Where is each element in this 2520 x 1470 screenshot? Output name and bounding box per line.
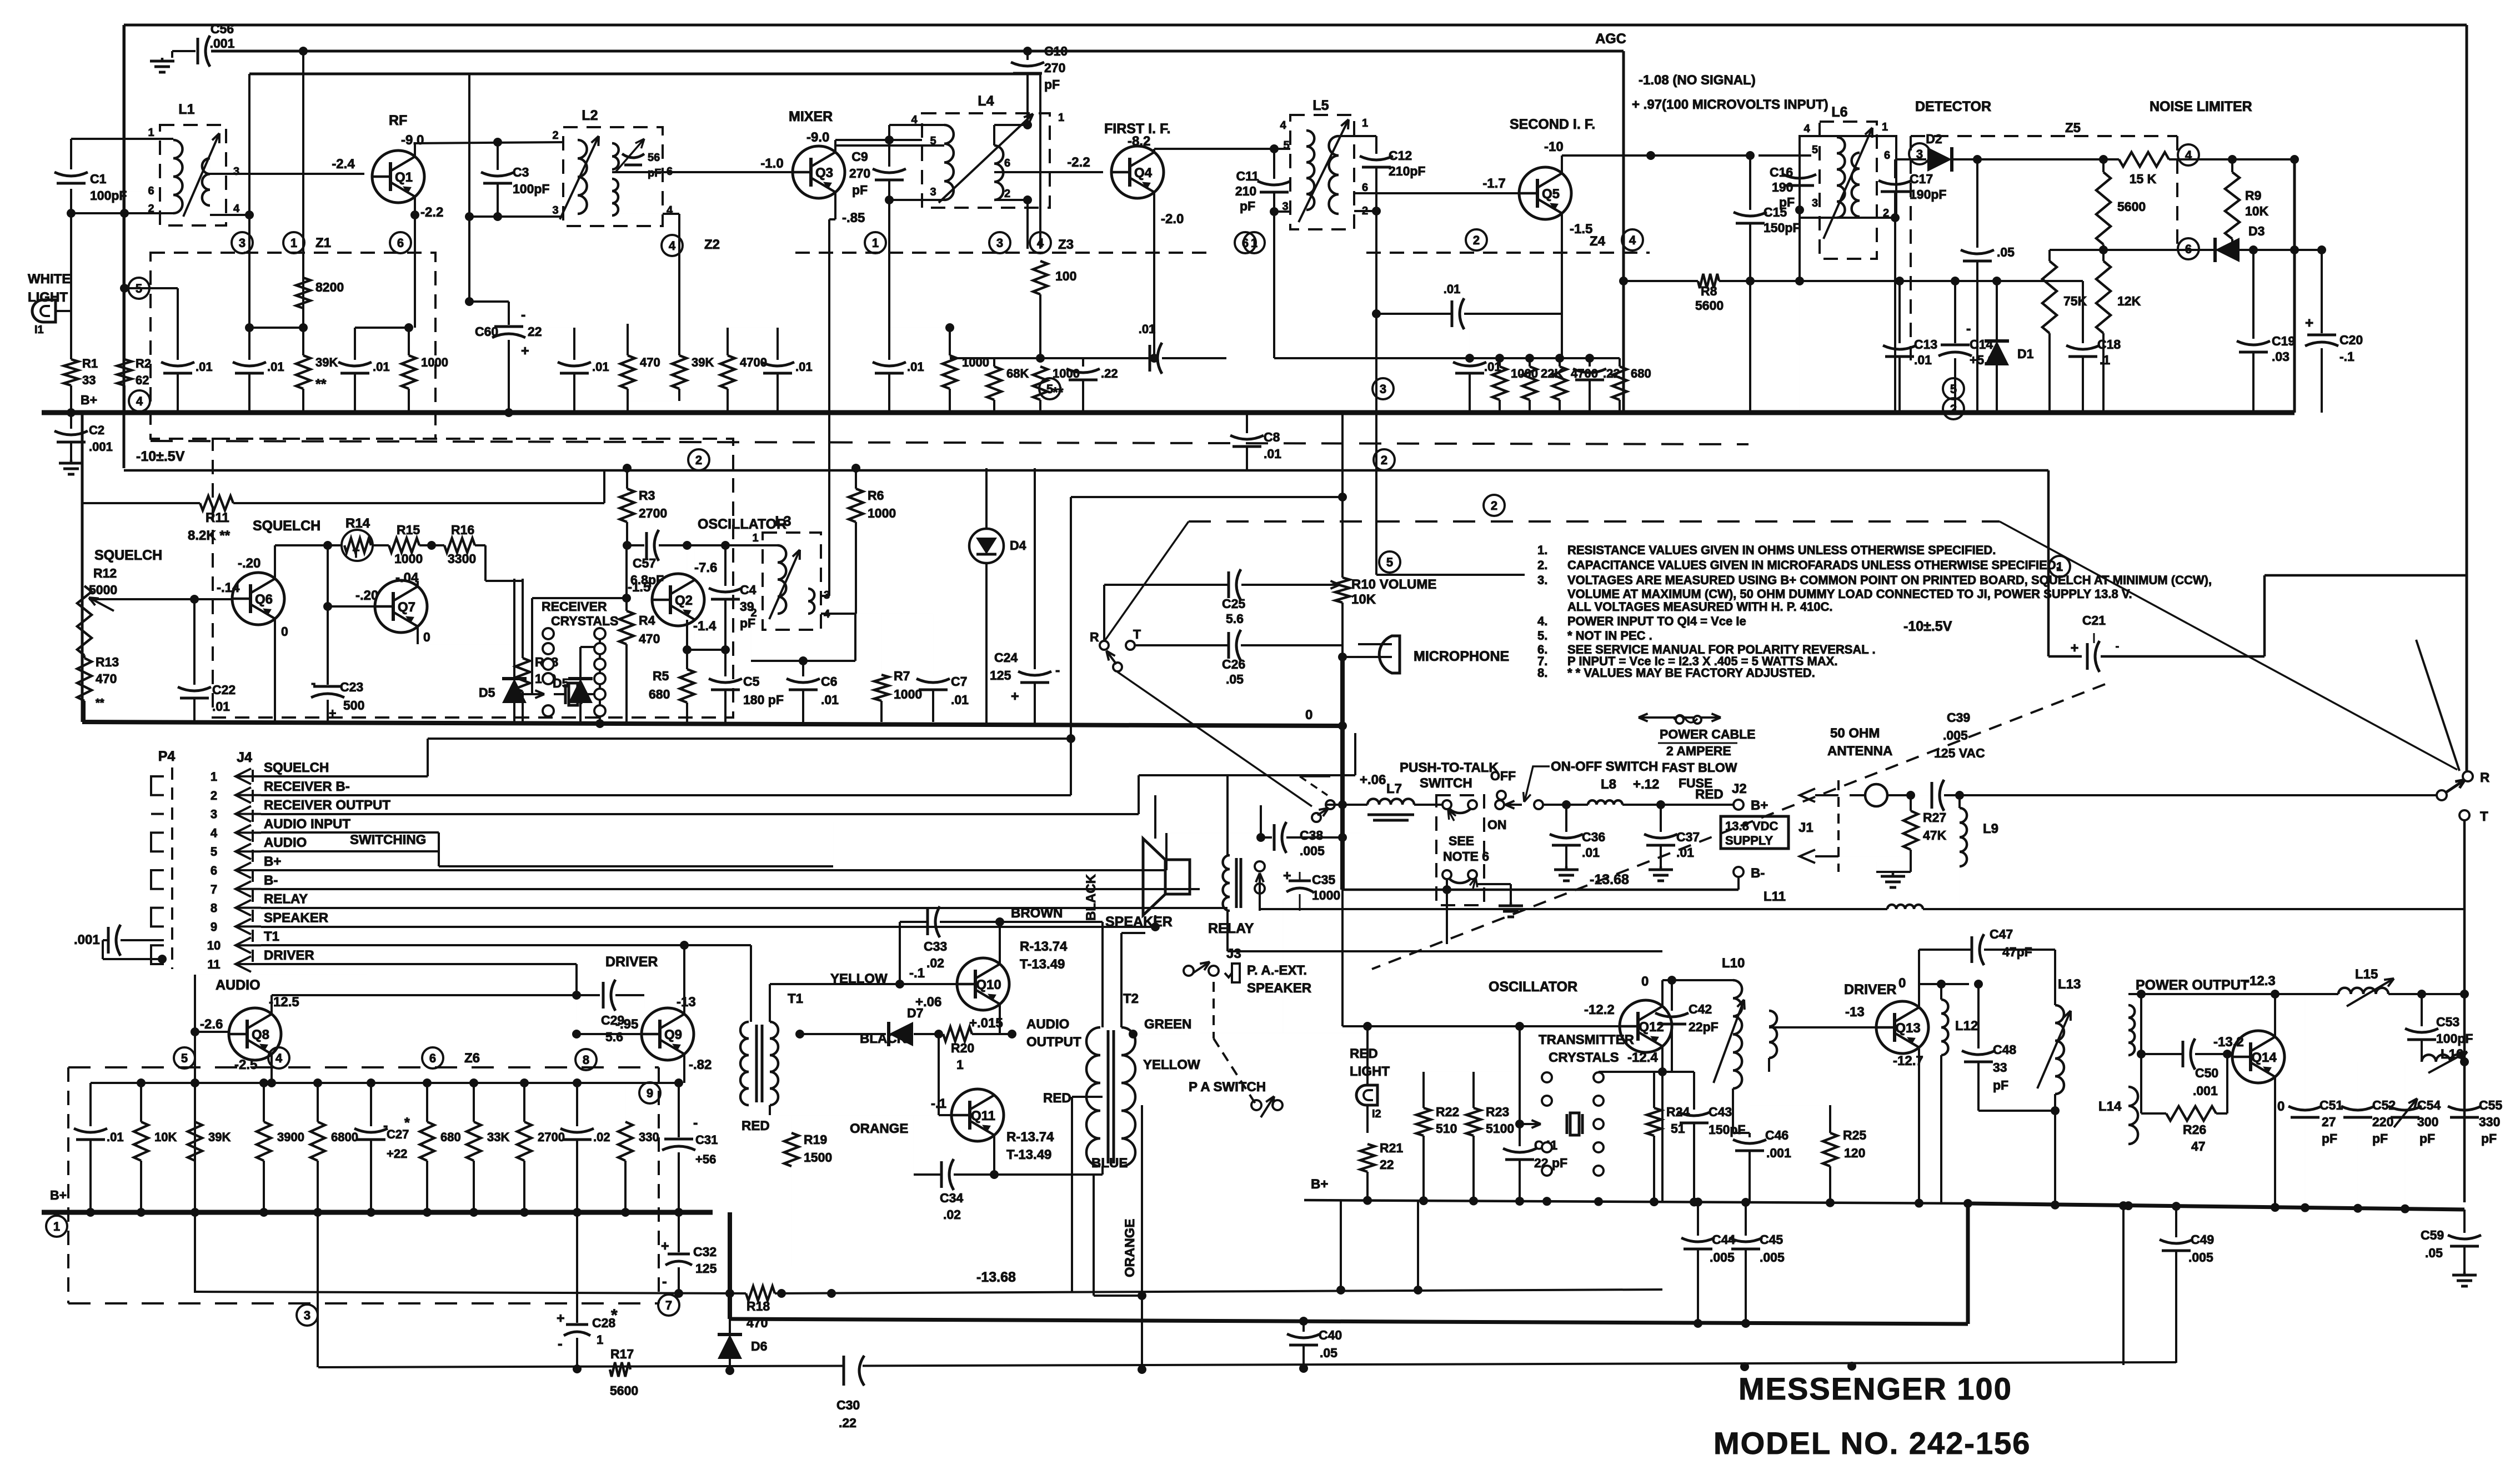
svg-text:4: 4	[275, 1051, 283, 1065]
svg-text:-9.0: -9.0	[401, 133, 424, 148]
diagonal to mic lever	[1104, 521, 1189, 641]
wire B- bus right portion	[1758, 358, 1759, 359]
capacitor .01 Z4a	[1469, 314, 1470, 360]
svg-text:500: 500	[343, 698, 364, 713]
svg-text:C25: C25	[1222, 596, 1245, 611]
wire Q5 emitter to Z4	[1561, 314, 1562, 358]
crystal selector circles right	[599, 634, 601, 724]
node circled 4 B+	[129, 390, 150, 412]
svg-text:-.1: -.1	[2339, 349, 2354, 364]
svg-text:MODEL NO. 242-156: MODEL NO. 242-156	[1714, 1426, 2031, 1461]
wire C57 to L3	[659, 544, 756, 546]
svg-text:C38: C38	[1300, 828, 1323, 842]
capacitor .01 series Z3	[1149, 345, 1151, 372]
inductor L1 primary	[173, 140, 183, 213]
wire R20 to Q10 emitter node	[972, 1033, 1012, 1035]
svg-text:* NOT IN PEC .: * NOT IN PEC .	[1567, 629, 1652, 643]
svg-text:1000: 1000	[1312, 888, 1340, 902]
resistor 3900 z6	[263, 1083, 265, 1122]
svg-text:C37: C37	[1676, 830, 1700, 844]
wire Q8 collector	[270, 995, 273, 1014]
wire R18 -13.68 line	[196, 1292, 746, 1293]
wire R11 right riser	[603, 470, 605, 503]
svg-text:6800: 6800	[331, 1130, 358, 1144]
svg-text:.22: .22	[1101, 367, 1118, 380]
node circled 3	[232, 232, 253, 253]
svg-text:5: 5	[1046, 382, 1053, 396]
svg-text:C5: C5	[743, 674, 760, 689]
capacitor C50	[2182, 1041, 2185, 1067]
wire L3 bottom rail	[751, 660, 855, 662]
wire BLUE line	[994, 1173, 1094, 1176]
svg-text:190pF: 190pF	[1910, 187, 1946, 202]
svg-text:POWER CABLE: POWER CABLE	[1660, 727, 1756, 741]
node circled 8 z6	[575, 1049, 597, 1070]
wire Q14 emitter drop	[2274, 1077, 2276, 1207]
capacitor C20	[2321, 250, 2323, 333]
wire -10V line	[124, 469, 2048, 472]
svg-text:B-: B-	[264, 873, 278, 888]
resistor 2700 z6	[523, 1083, 525, 1122]
svg-text:27: 27	[2322, 1115, 2336, 1129]
wire L5 pin3 line	[1274, 210, 1290, 213]
transistor Q9 (driver)	[642, 1008, 694, 1060]
svg-text:-13.68: -13.68	[1590, 872, 1629, 887]
svg-text:15 K: 15 K	[2130, 172, 2157, 186]
svg-text:8: 8	[583, 1053, 589, 1067]
inductor L8	[1588, 800, 1622, 805]
resistor 12K	[2102, 250, 2105, 261]
svg-text:-1.7: -1.7	[1482, 176, 1505, 191]
wire det line to riser	[2169, 158, 2294, 160]
wire Q9 collector	[683, 945, 685, 1014]
svg-text:.05: .05	[1320, 1346, 1337, 1360]
resistor R2	[117, 359, 132, 385]
svg-text:6: 6	[397, 236, 404, 250]
resistor 8200	[296, 278, 310, 308]
resistor 22K Z4	[1522, 367, 1537, 400]
svg-text:.1: .1	[2100, 353, 2110, 367]
wire T1 sec mid (black) to D7	[769, 1034, 770, 1043]
svg-text:470: 470	[96, 671, 117, 686]
svg-text:C19: C19	[2272, 334, 2295, 348]
svg-text:+: +	[521, 343, 529, 359]
capacitor C59	[2448, 1235, 2481, 1239]
wire B+ bus audio	[42, 1210, 713, 1215]
wire note6 plug drop2	[1446, 890, 1447, 944]
wire osc feed line	[1200, 1032, 1520, 1033]
relay contacts	[1255, 861, 1265, 871]
wire mic leads	[1358, 643, 1392, 645]
wire x449 vertical (Z1 pin3)	[248, 74, 251, 215]
relay coil	[1223, 855, 1230, 911]
svg-text:R15: R15	[397, 523, 420, 537]
svg-text:6: 6	[211, 864, 217, 877]
wire pin7 line	[261, 888, 1200, 890]
wire audio input riser	[439, 865, 833, 867]
wire L1 pin3 to Q1 base	[209, 158, 211, 174]
svg-text:3.: 3.	[1537, 573, 1547, 587]
wire squelch left vertical	[82, 503, 83, 586]
svg-text:-13.68: -13.68	[976, 1270, 1016, 1285]
wire emitter rail	[687, 649, 725, 651]
svg-text:R18: R18	[747, 1299, 770, 1313]
node circled 3 Z5	[1909, 143, 1930, 164]
wire T rail	[2463, 820, 2466, 1202]
capacitor C53	[2421, 994, 2423, 1026]
wire plug bottom drop	[1446, 879, 1448, 944]
svg-text:-10±.5V: -10±.5V	[1903, 619, 1952, 634]
svg-text:2 AMPERE: 2 AMPERE	[1666, 744, 1731, 758]
transistor Q7 (squelch)	[375, 580, 427, 633]
svg-text:L6: L6	[1831, 104, 1847, 120]
wire brown riser to T2	[1101, 922, 1104, 1027]
ground C2	[70, 460, 73, 463]
svg-text:L12: L12	[1955, 1019, 1978, 1033]
svg-text:3: 3	[1812, 197, 1818, 209]
wire pin5 line	[261, 850, 439, 852]
svg-text:.01: .01	[1264, 446, 1281, 461]
resistor 6800 z6	[317, 1083, 319, 1122]
capacitor C31	[678, 1083, 680, 1137]
svg-text:39K: 39K	[315, 355, 338, 369]
svg-text:8200: 8200	[315, 280, 344, 294]
inductor L12	[1941, 1000, 1948, 1055]
svg-text:.001: .001	[1766, 1146, 1791, 1160]
wire detector output line	[1977, 158, 2119, 160]
resistor 75K	[2048, 250, 2051, 261]
inductor L12 input coil	[1769, 1011, 1777, 1058]
svg-text:OFF: OFF	[1490, 769, 1516, 783]
wire heavy bottom branch	[728, 1212, 732, 1319]
crystal wiper arrow	[532, 693, 537, 695]
R/T lever pivot	[2437, 790, 2447, 800]
svg-text:3: 3	[233, 165, 239, 178]
svg-text:D6: D6	[751, 1339, 767, 1353]
capacitor C8	[1246, 413, 1248, 433]
resistor 330 z6	[625, 1083, 626, 1122]
svg-text:R: R	[1090, 630, 1099, 644]
svg-text:.001: .001	[89, 440, 113, 454]
wire T2 sec top	[1120, 933, 1123, 1027]
svg-text:1: 1	[1058, 112, 1064, 124]
wire pin2 line	[261, 794, 1071, 796]
wire L10 top	[1732, 980, 1734, 981]
svg-text:+: +	[1011, 689, 1019, 704]
wire pin1 squelch line	[261, 775, 428, 777]
svg-text:C56: C56	[211, 22, 234, 36]
capacitor .02 z6	[576, 1083, 578, 1126]
resistor 68K	[987, 367, 1001, 400]
capacitor C40	[1287, 1334, 1320, 1338]
svg-text:8: 8	[211, 901, 217, 915]
svg-text:D2: D2	[1926, 132, 1942, 146]
svg-text:T1: T1	[264, 929, 279, 944]
node circled 7 z6	[658, 1295, 679, 1316]
svg-text:100pF: 100pF	[90, 188, 127, 203]
svg-text:C57: C57	[633, 556, 656, 570]
wire 100 bottom	[1039, 294, 1041, 358]
wire squelch bottom heavy bus	[82, 722, 1342, 726]
svg-text:ORANGE: ORANGE	[1123, 1219, 1138, 1277]
svg-text:47: 47	[2191, 1139, 2206, 1153]
wire Q9 emitter to C31	[674, 1078, 683, 1087]
svg-text:C40: C40	[1319, 1328, 1342, 1342]
svg-text:+22: +22	[387, 1147, 407, 1161]
svg-text:LIGHT: LIGHT	[1350, 1064, 1390, 1079]
svg-text:C55: C55	[2479, 1098, 2502, 1112]
svg-text:39K: 39K	[208, 1130, 231, 1144]
svg-text:R25: R25	[1843, 1128, 1866, 1142]
inductor L5 primary	[1306, 131, 1314, 210]
wire Q3 emitter	[834, 192, 836, 219]
svg-text:2: 2	[552, 129, 558, 142]
inductor L2 secondary small	[612, 143, 619, 169]
svg-text:470: 470	[639, 631, 660, 646]
svg-text:I1: I1	[34, 324, 44, 336]
wire AGC riser join	[1650, 155, 1651, 156]
svg-text:Z5: Z5	[2065, 121, 2081, 136]
wire Q6 emitter	[274, 619, 276, 722]
svg-text:5.: 5.	[1537, 629, 1547, 643]
capacitor C29	[599, 995, 600, 996]
resistor R26	[2166, 1106, 2216, 1121]
svg-text:5: 5	[211, 845, 217, 859]
node circled 2 a	[688, 449, 709, 470]
mic R/T switch	[1100, 641, 1109, 650]
wire Q4 emitter	[1153, 192, 1155, 358]
svg-text:.02: .02	[593, 1130, 610, 1144]
inductor L3 primary	[778, 545, 786, 614]
svg-text:6: 6	[1004, 157, 1010, 169]
wire L2 pin6 to Q3	[612, 171, 794, 173]
svg-text:POWER INPUT TO QI4 = Vce Ie: POWER INPUT TO QI4 = Vce Ie	[1567, 614, 1746, 628]
resistor 10K z6	[140, 1083, 142, 1122]
svg-text:220: 220	[2372, 1115, 2393, 1129]
transistor Q2 (oscillator)	[652, 574, 704, 626]
svg-text:C29: C29	[601, 1013, 624, 1027]
wire Q7 base line	[328, 605, 375, 608]
svg-text:C24: C24	[994, 650, 1018, 665]
resistor R1	[64, 359, 78, 385]
svg-text:+: +	[329, 706, 336, 720]
thermistor R14	[342, 530, 373, 561]
resistor R16	[444, 538, 475, 553]
svg-text:B+: B+	[1751, 798, 1768, 813]
svg-text:.02: .02	[943, 1207, 961, 1222]
wire L13 bottom	[2054, 1094, 2056, 1205]
wire L16 rail join	[2460, 990, 2469, 999]
svg-text:RELAY: RELAY	[1208, 921, 1254, 936]
svg-text:1: 1	[752, 532, 758, 544]
svg-text:-12.4: -12.4	[1627, 1050, 1658, 1065]
resistor 1000** Z3	[1033, 367, 1048, 400]
wire z3 rail	[889, 327, 950, 328]
svg-text:50 OHM: 50 OHM	[1830, 726, 1880, 741]
wire rail risers to R18 line	[1340, 1201, 1342, 1290]
wire xtal col join	[1598, 1077, 1599, 1171]
svg-text:6: 6	[2185, 242, 2192, 256]
resistor 4700 Z2	[720, 355, 735, 389]
wire 6800 leg down	[317, 1212, 319, 1367]
svg-text:-2.6: -2.6	[200, 1017, 223, 1032]
svg-text:2: 2	[148, 203, 154, 215]
svg-text:-1.0: -1.0	[760, 156, 783, 171]
wire L10 bottom drop	[1732, 1088, 1734, 1133]
capacitor C22	[178, 687, 211, 691]
svg-text:SUPPLY: SUPPLY	[1725, 834, 1773, 847]
polarity plug top	[1442, 800, 1451, 809]
svg-text:7: 7	[211, 882, 217, 896]
svg-text:R6: R6	[868, 488, 884, 503]
svg-text:C18: C18	[2097, 337, 2121, 352]
wire C1 bottom node line	[71, 212, 173, 214]
crystal selector circles left	[543, 628, 554, 639]
wire det bias line	[1800, 280, 2083, 282]
wire top border	[124, 24, 2467, 27]
svg-text:C10: C10	[1044, 44, 1068, 58]
svg-text:4: 4	[1803, 123, 1810, 135]
capacitor C18	[2082, 281, 2084, 343]
svg-text:L3: L3	[775, 514, 791, 529]
dashed link J3 to PA switch	[1213, 982, 1215, 1038]
svg-text:R12: R12	[93, 566, 117, 580]
svg-text:D3: D3	[2248, 224, 2265, 238]
connector pin 10 T1	[236, 937, 251, 953]
wire pin9 line	[261, 926, 1155, 928]
wire BROWN line	[1000, 921, 1103, 923]
svg-text:5.6: 5.6	[605, 1030, 623, 1044]
svg-text:-8.2: -8.2	[1128, 134, 1150, 149]
connector P4 brackets	[151, 776, 164, 795]
svg-text:B+: B+	[50, 1188, 67, 1202]
svg-text:L13: L13	[2058, 977, 2081, 992]
svg-text:NOISE LIMITER: NOISE LIMITER	[2150, 99, 2252, 114]
resistor R25	[1823, 1133, 1837, 1166]
connector pin 11 DRIVER	[236, 956, 251, 972]
svg-text:MESSENGER 100: MESSENGER 100	[1739, 1371, 2012, 1406]
inductor L1 secondary	[202, 158, 210, 205]
wire Q9 base	[577, 1033, 642, 1035]
svg-text:62: 62	[136, 373, 149, 387]
PTT contacts	[1326, 800, 1335, 809]
svg-text:Q14: Q14	[2251, 1050, 2277, 1065]
capacitor C7	[933, 614, 934, 676]
svg-text:C36: C36	[1582, 830, 1605, 844]
svg-text:C12: C12	[1389, 148, 1412, 163]
wire B+ bus (receiver)	[42, 410, 2294, 415]
svg-text:-2.4: -2.4	[332, 157, 355, 172]
wire R2 tap line	[124, 287, 178, 289]
svg-text:.02: .02	[926, 956, 944, 970]
svg-text:C51: C51	[2319, 1098, 2343, 1112]
capacitor C33	[926, 909, 929, 935]
capacitor C30 series	[845, 1355, 863, 1386]
svg-text:3: 3	[1380, 382, 1386, 396]
resistor R13	[77, 658, 92, 701]
L4 arrow	[939, 114, 1033, 203]
svg-text:56: 56	[648, 152, 660, 164]
resistor 100 Z3	[1033, 261, 1048, 294]
svg-text:.01: .01	[795, 360, 813, 374]
resistor 5600 Z5	[2096, 172, 2111, 244]
capacitor C45	[1745, 1203, 1747, 1236]
SEE NOTE 6 box	[1436, 795, 1484, 905]
svg-text:2: 2	[750, 607, 756, 619]
svg-text:+: +	[2305, 314, 2313, 331]
transformer L4 box	[922, 113, 1050, 208]
svg-text:C53: C53	[2436, 1015, 2459, 1029]
svg-text:OSCILLATOR: OSCILLATOR	[1489, 979, 1577, 995]
svg-text:680: 680	[440, 1130, 461, 1144]
wire pin4 line	[261, 831, 439, 834]
svg-text:pF: pF	[1779, 195, 1795, 209]
node circled 6 Z5	[2178, 238, 2199, 259]
wire PA collector line	[2128, 993, 2338, 995]
svg-text:R3: R3	[639, 488, 655, 503]
svg-text:SPEAKER: SPEAKER	[264, 910, 328, 925]
svg-text:-10±.5V: -10±.5V	[136, 449, 185, 464]
svg-text:+.12: +.12	[1633, 777, 1659, 792]
diode D3	[2215, 238, 2240, 262]
wire AGC vertical	[1622, 51, 1625, 413]
svg-text:100: 100	[1055, 269, 1076, 283]
node circled 4 Z3	[1030, 232, 1051, 253]
svg-text:5600: 5600	[610, 1383, 638, 1398]
svg-text:33: 33	[82, 373, 96, 387]
svg-text:T: T	[2480, 809, 2488, 824]
receiver crystals box lines	[532, 597, 627, 599]
wire Q14 collector	[2274, 994, 2276, 1037]
inductor L4 primary	[944, 125, 954, 200]
PA switch contacts	[1251, 1100, 1261, 1110]
connector P4 pin3 stub	[151, 813, 164, 815]
capacitor .05 Z5	[1976, 159, 1978, 248]
svg-text:+.06: +.06	[915, 995, 941, 1010]
svg-text:T: T	[353, 548, 359, 560]
svg-text:39K: 39K	[692, 355, 714, 369]
svg-text:.01: .01	[1914, 353, 1932, 367]
svg-text:B+: B+	[1311, 1177, 1328, 1192]
inductor L11	[1887, 905, 1923, 909]
svg-text:SECOND I. F.: SECOND I. F.	[1510, 117, 1595, 132]
wire blue jog	[1093, 1175, 1095, 1296]
svg-text:330: 330	[639, 1130, 659, 1144]
svg-text:T-13.49: T-13.49	[1006, 1147, 1051, 1162]
node circled 1 Z3	[865, 232, 886, 253]
wire Q5 emitter	[1561, 213, 1563, 358]
capacitor C35	[1289, 880, 1311, 882]
svg-text:-: -	[1966, 321, 1971, 337]
diagonal mic to PTT	[1118, 672, 1312, 806]
svg-text:2.: 2.	[1537, 558, 1547, 572]
svg-text:0: 0	[2277, 1099, 2284, 1114]
connector pin 1 SQUELCH	[236, 769, 251, 784]
svg-text:+: +	[661, 1238, 669, 1254]
svg-text:150pF: 150pF	[1709, 1122, 1745, 1137]
T contact	[2459, 810, 2469, 820]
resistor 4700 Z4	[1552, 367, 1567, 400]
svg-text:*: *	[404, 1115, 410, 1131]
R contact	[2463, 771, 2473, 781]
wire L5 pin2 line	[1354, 210, 1376, 212]
svg-text:-.82: -.82	[689, 1057, 712, 1072]
svg-text:4: 4	[2185, 148, 2192, 162]
capacitor C47	[1971, 936, 1973, 963]
svg-text:1: 1	[956, 1057, 964, 1072]
svg-text:5000: 5000	[89, 583, 117, 597]
wire Q10 collector	[999, 922, 1001, 964]
